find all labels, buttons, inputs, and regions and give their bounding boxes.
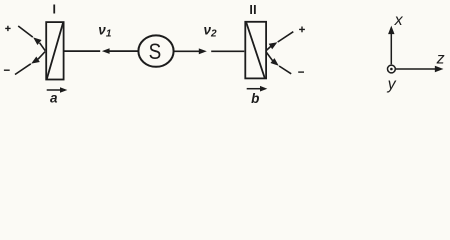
svg-text:y: y: [387, 76, 397, 93]
svg-text:I: I: [52, 3, 55, 17]
svg-text:a: a: [50, 90, 58, 105]
svg-text:ν1: ν1: [98, 22, 112, 39]
svg-text:II: II: [249, 3, 257, 17]
svg-text:z: z: [436, 51, 445, 68]
svg-text:b: b: [251, 91, 259, 106]
svg-text:ν2: ν2: [204, 22, 218, 39]
svg-text:S: S: [149, 39, 162, 64]
svg-text:x: x: [394, 12, 404, 29]
